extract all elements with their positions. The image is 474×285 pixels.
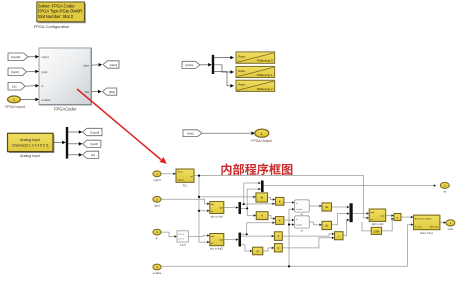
svg-text:[Ma]: [Ma] <box>187 132 193 136</box>
svg-text:Ratio: Ratio <box>238 69 245 73</box>
svg-text:PLL: PLL <box>183 183 188 187</box>
svg-text:[Igrid]: [Igrid] <box>90 142 98 146</box>
svg-text:wt: wt <box>443 190 446 194</box>
svg-text:iL: iL <box>156 236 159 240</box>
svg-text:FPGACoder: FPGACoder <box>54 107 77 112</box>
svg-text:enable: enable <box>153 271 162 275</box>
svg-text:[Ugrid]: [Ugrid] <box>11 55 20 59</box>
svg-text:K: K <box>279 220 281 223</box>
svg-text:pi: pi <box>257 250 259 253</box>
svg-text:Channel:[0 1 2 3 4 5 6 7]: Channel:[0 1 2 3 4 5 6 7] <box>12 144 48 148</box>
svg-text:Slot Number: Slot 2: Slot Number: Slot 2 <box>38 14 74 19</box>
svg-text:wt: wt <box>370 218 373 221</box>
svg-text:Ma: Ma <box>85 90 89 94</box>
svg-text:ratio: ratio <box>448 227 454 231</box>
svg-text:Ugrid: Ugrid <box>42 55 50 59</box>
svg-text:[IL]: [IL] <box>91 153 95 157</box>
svg-text:data: data <box>83 63 89 67</box>
svg-text:Ugrid: Ugrid <box>154 178 161 182</box>
svg-text:wt: wt <box>211 210 214 213</box>
svg-text:Freq: Freq <box>178 172 183 174</box>
svg-text:Analog Input: Analog Input <box>20 138 40 142</box>
svg-text:Reference Wave: Reference Wave <box>415 218 433 220</box>
svg-text:abc to dq0: abc to dq0 <box>211 214 224 218</box>
svg-text:K: K <box>279 201 281 204</box>
svg-text:[Igrid]: [Igrid] <box>11 70 19 74</box>
svg-text:wt: wt <box>190 175 193 178</box>
svg-text:1-0.5z: 1-0.5z <box>178 234 184 236</box>
svg-text:PWassing 2: PWassing 2 <box>257 87 273 91</box>
svg-text:1-z^-1: 1-z^-1 <box>178 238 185 241</box>
svg-text:enable: enable <box>42 98 51 102</box>
svg-text:[IL]: [IL] <box>12 84 16 88</box>
svg-text:Ratio: Ratio <box>238 55 245 59</box>
svg-text:1.084: 1.084 <box>373 230 380 233</box>
svg-text:PWassing 1: PWassing 1 <box>257 73 273 77</box>
svg-text:Ugrid: Ugrid <box>178 180 184 182</box>
svg-text:iL: iL <box>42 84 45 88</box>
svg-text:enable: enable <box>296 209 303 211</box>
svg-text:[Ma]: [Ma] <box>109 90 115 94</box>
svg-text:Enable: Enable <box>415 226 423 228</box>
svg-text:FPGA Type:PGte 0940R: FPGA Type:PGte 0940R <box>38 9 82 14</box>
svg-text:Ratio: Ratio <box>238 83 245 87</box>
svg-text:enable: enable <box>296 225 303 227</box>
svg-text:Rate Gn: Rate Gn <box>430 225 439 228</box>
svg-text:FPGA Output: FPGA Output <box>251 139 271 143</box>
svg-text:wt: wt <box>211 242 214 245</box>
svg-text:Igrid: Igrid <box>42 70 48 74</box>
svg-text:[Ugrid]: [Ugrid] <box>90 130 99 134</box>
svg-text:K: K <box>261 215 263 218</box>
svg-text:Solver: FPGA Coder: Solver: FPGA Coder <box>38 3 75 8</box>
svg-text:[ratio]: [ratio] <box>185 63 193 67</box>
svg-text:FPGA Configuration: FPGA Configuration <box>34 24 70 29</box>
svg-text:dq0 to abc: dq0 to abc <box>371 222 384 226</box>
svg-text:PWassing 0: PWassing 0 <box>257 59 273 63</box>
svg-text:[ratio]: [ratio] <box>110 63 118 67</box>
svg-text:1-0.5: 1-0.5 <box>180 243 186 247</box>
svg-text:Analog Input: Analog Input <box>20 154 40 158</box>
svg-text:abc to dq01: abc to dq01 <box>210 247 224 251</box>
svg-text:igrid: igrid <box>154 203 160 207</box>
svg-text:Rate Trans: Rate Trans <box>420 231 433 235</box>
svg-text:1: 1 <box>13 98 15 102</box>
svg-text:FPGA Import: FPGA Import <box>5 105 25 109</box>
